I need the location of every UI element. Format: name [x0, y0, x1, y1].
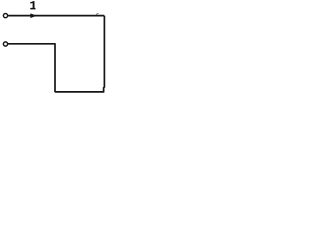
wire right vertical	[103, 16, 106, 92]
terminal node (top-left)	[3, 14, 7, 18]
wire bottom	[55, 91, 105, 93]
wire lower lead	[8, 43, 56, 45]
label 1	[30, 1, 35, 9]
terminal node (lower-left)	[3, 42, 7, 46]
wire top lead	[8, 15, 104, 17]
wire mid vertical	[54, 44, 56, 92]
current arrow	[30, 13, 37, 18]
scan speck near top-right corner	[96, 13, 98, 14]
